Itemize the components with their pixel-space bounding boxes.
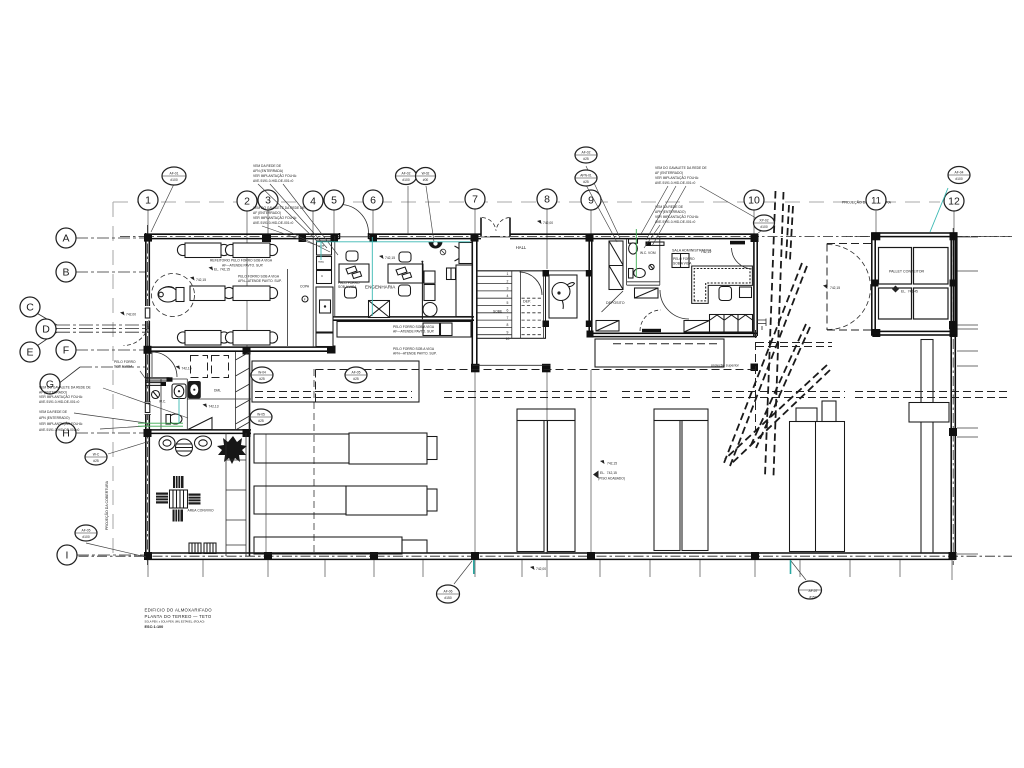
- svg-text:EL. 742,15: EL. 742,15: [214, 268, 230, 272]
- svg-text:#00: #00: [423, 178, 429, 182]
- svg-text:8: 8: [507, 323, 509, 327]
- svg-text:W-C: W-C: [93, 453, 100, 457]
- svg-text:2: 2: [244, 196, 250, 208]
- svg-text:SOB A VIGA: SOB A VIGA: [338, 285, 357, 289]
- svg-text:SOB A VIGA: SOB A VIGA: [114, 365, 133, 369]
- svg-text:#150: #150: [809, 595, 817, 599]
- svg-text:742,15: 742,15: [830, 286, 840, 290]
- svg-text:W.C. VOM: W.C. VOM: [640, 251, 656, 255]
- svg-text:#100: #100: [760, 225, 768, 229]
- svg-text:I: I: [66, 550, 69, 562]
- svg-text:2: 2: [507, 279, 509, 283]
- svg-text:VER IMPLANTAÇÃO FOLHA:: VER IMPLANTAÇÃO FOLHA:: [39, 394, 83, 399]
- svg-text:AFN—ATENDE PAVTO. SUP.: AFN—ATENDE PAVTO. SUP.: [393, 352, 437, 356]
- svg-text:EL. 742,15: EL. 742,15: [600, 471, 617, 475]
- svg-text:VEM DO GAVALETE DA REDE DE: VEM DO GAVALETE DA REDE DE: [253, 206, 306, 210]
- svg-text:742,15: 742,15: [385, 256, 395, 260]
- svg-text:DEP.: DEP.: [523, 300, 531, 304]
- svg-text:742,00: 742,00: [126, 313, 136, 317]
- svg-text:PALLET CONTEITOR: PALLET CONTEITOR: [889, 270, 925, 274]
- svg-text:AVE-9191.0-HID-DE-001=0: AVE-9191.0-HID-DE-001=0: [253, 221, 294, 225]
- svg-text:AF-02: AF-02: [402, 172, 411, 176]
- svg-text:HALL: HALL: [516, 245, 527, 250]
- svg-text:APN-01: APN-01: [580, 174, 592, 178]
- svg-text:DEPÓSITO: DEPÓSITO: [606, 300, 625, 305]
- svg-text:AF-01: AF-01: [170, 172, 179, 176]
- svg-text:AF—ATENDE PAVTO. SUP.: AF—ATENDE PAVTO. SUP.: [393, 330, 435, 334]
- svg-text:#100: #100: [170, 178, 178, 182]
- svg-text:AVE-9191.0-HID-DE-001=0: AVE-9191.0-HID-DE-001=0: [39, 400, 80, 404]
- svg-text:AF (ENTERRADO): AF (ENTERRADO): [39, 390, 67, 394]
- svg-text:PELO FORRO SOB A VIGA: PELO FORRO SOB A VIGA: [393, 347, 435, 351]
- svg-text:REFEITORIO PELO FORRO SOB A VI: REFEITORIO PELO FORRO SOB A VIGA: [210, 259, 273, 263]
- svg-text:maq: maq: [318, 260, 324, 264]
- svg-text:ESC:1:100: ESC:1:100: [145, 625, 164, 629]
- svg-text:AF-05: AF-05: [82, 529, 91, 533]
- svg-text:XP-02: XP-02: [759, 219, 768, 223]
- svg-text:AF (ENTERRADO): AF (ENTERRADO): [655, 171, 683, 175]
- svg-text:4: 4: [310, 196, 316, 208]
- svg-text:VER IMPLANTAÇÃO FOLHA:: VER IMPLANTAÇÃO FOLHA:: [39, 421, 83, 426]
- svg-text:#100: #100: [955, 177, 963, 181]
- svg-text:E: E: [26, 347, 33, 359]
- svg-text:APN (ENTERRADO): APN (ENTERRADO): [39, 416, 70, 420]
- svg-text:VER IMPLANTAÇÃO FOLHA:: VER IMPLANTAÇÃO FOLHA:: [253, 173, 297, 178]
- svg-text:#100: #100: [402, 178, 410, 182]
- svg-text:(PISO ACABADO): (PISO ACABADO): [598, 476, 625, 480]
- svg-text:AF-05: AF-05: [352, 371, 361, 375]
- svg-text:AVE-9191.0-HID-DE-001=0: AVE-9191.0-HID-DE-001=0: [39, 428, 80, 432]
- svg-text:W.C.: W.C.: [159, 400, 166, 404]
- svg-text:A: A: [62, 233, 69, 245]
- svg-text:742,13: 742,13: [701, 250, 711, 254]
- svg-text:VEM DA REDE DE: VEM DA REDE DE: [39, 410, 68, 414]
- svg-text:#25: #25: [258, 419, 264, 423]
- svg-text:PLANTA DO TERREO — TETO: PLANTA DO TERREO — TETO: [145, 614, 212, 619]
- svg-text:PELO FORRO: PELO FORRO: [114, 360, 136, 364]
- svg-text:742,15: 742,15: [196, 278, 206, 282]
- svg-text:B: B: [62, 267, 69, 279]
- svg-text:AVE-9191.0-HID-DE-001=0: AVE-9191.0-HID-DE-001=0: [655, 181, 696, 185]
- svg-text:742,15: 742,15: [182, 367, 192, 371]
- svg-text:3: 3: [265, 195, 271, 207]
- svg-text:VEM DA REDE DE: VEM DA REDE DE: [655, 205, 684, 209]
- svg-text:SOBE: SOBE: [493, 310, 503, 314]
- svg-text:8: 8: [544, 194, 550, 206]
- svg-text:#25: #25: [353, 377, 359, 381]
- svg-text:SOLA PEN. x SOLA PEN. (MIL EST: SOLA PEN. x SOLA PEN. (MIL ESTAVEL, (ROL…: [145, 620, 205, 624]
- svg-text:AVE-9191.0-HID-DE-001=0: AVE-9191.0-HID-DE-001=0: [253, 179, 294, 183]
- svg-text:3: 3: [507, 287, 509, 291]
- svg-text:742,00: 742,00: [543, 221, 553, 225]
- svg-text:projeção superior: projeção superior: [711, 364, 740, 368]
- svg-text:#25: #25: [583, 180, 589, 184]
- svg-text:AREA CONVIVIO: AREA CONVIVIO: [188, 509, 214, 513]
- svg-text:742,00: 742,00: [536, 567, 546, 571]
- svg-text:F: F: [304, 297, 306, 301]
- svg-text:7: 7: [507, 316, 509, 320]
- svg-text:F: F: [63, 345, 69, 357]
- svg-text:AFN (ENTERRADA): AFN (ENTERRADA): [253, 169, 283, 173]
- svg-text:AF-04: AF-04: [955, 171, 964, 175]
- svg-text:10: 10: [506, 337, 510, 341]
- svg-text:11: 11: [871, 196, 881, 207]
- svg-text:C: C: [26, 302, 34, 314]
- svg-text:DML: DML: [214, 389, 221, 393]
- svg-text:PROJEÇÃO DA COBERTURA: PROJEÇÃO DA COBERTURA: [104, 480, 109, 530]
- svg-text:6: 6: [507, 309, 509, 313]
- svg-text:1: 1: [145, 195, 151, 207]
- svg-text:6: 6: [370, 195, 376, 207]
- svg-text:AF-02: AF-02: [582, 151, 591, 155]
- svg-text:#25: #25: [259, 377, 265, 381]
- svg-text:VER IMPLANTAÇÃO FOLHA:: VER IMPLANTAÇÃO FOLHA:: [655, 175, 699, 180]
- svg-text:PELO FORRO: PELO FORRO: [673, 257, 695, 261]
- svg-text:VER IMPLANTAÇÃO FOLHA:: VER IMPLANTAÇÃO FOLHA:: [655, 214, 699, 219]
- svg-text:#150: #150: [444, 596, 452, 600]
- svg-text:W-04: W-04: [258, 371, 266, 375]
- svg-text:5: 5: [331, 195, 337, 207]
- svg-text:742,13: 742,13: [209, 405, 219, 409]
- svg-text:#100: #100: [82, 535, 90, 539]
- svg-text:#25: #25: [583, 157, 589, 161]
- svg-text:9: 9: [507, 330, 509, 334]
- svg-text:742,15: 742,15: [607, 462, 617, 466]
- svg-text:4: 4: [507, 294, 509, 298]
- svg-text:W-05: W-05: [257, 413, 265, 417]
- svg-text:EDIFICIO DO ALMOXARIFADO: EDIFICIO DO ALMOXARIFADO: [145, 608, 213, 613]
- svg-text:COPA: COPA: [300, 285, 310, 289]
- svg-text:W-02: W-02: [422, 172, 430, 176]
- svg-text:AF-06: AF-06: [444, 590, 453, 594]
- svg-text:5: 5: [507, 301, 509, 305]
- svg-text:AFN—ATENDE PAVTO. SUP.: AFN—ATENDE PAVTO. SUP.: [238, 279, 282, 283]
- svg-text:12: 12: [948, 196, 960, 208]
- svg-text:D: D: [42, 324, 50, 336]
- svg-text:AF (ENTERRADO): AF (ENTERRADO): [253, 211, 281, 215]
- svg-text:PELO FORRO SOB A VIGA: PELO FORRO SOB A VIGA: [393, 325, 435, 329]
- svg-text:9: 9: [588, 195, 594, 207]
- svg-text:ENGENHARIA: ENGENHARIA: [365, 285, 396, 290]
- svg-text:VEM DO GAVALETE DA REDE DE: VEM DO GAVALETE DA REDE DE: [39, 386, 92, 390]
- svg-text:AVE-9191.0-HID-DE-001=0: AVE-9191.0-HID-DE-001=0: [655, 220, 696, 224]
- svg-text:10: 10: [748, 195, 760, 207]
- svg-text:VEM DA REDE DE: VEM DA REDE DE: [253, 164, 282, 168]
- svg-text:AF-07: AF-07: [809, 589, 818, 593]
- svg-text:7: 7: [472, 194, 478, 206]
- svg-text:VEM DO GAVALETE DA REDE DE: VEM DO GAVALETE DA REDE DE: [655, 166, 708, 170]
- svg-text:#25: #25: [93, 459, 99, 463]
- svg-text:1: 1: [507, 272, 509, 276]
- svg-text:EL. 743,45: EL. 743,45: [901, 290, 918, 294]
- svg-text:PELO FORRO SOB A VIGA: PELO FORRO SOB A VIGA: [238, 275, 280, 279]
